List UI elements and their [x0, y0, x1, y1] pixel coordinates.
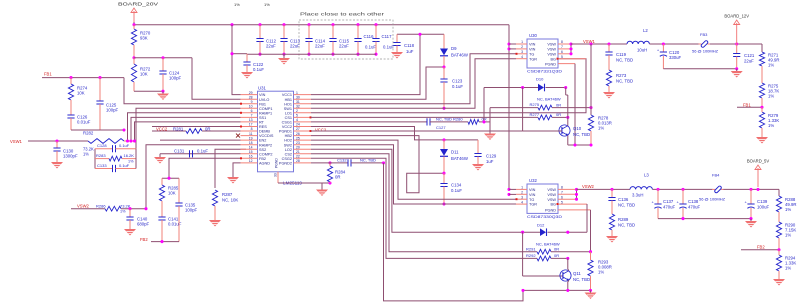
svg-text:25: 25 [296, 136, 300, 140]
svg-text:HO1: HO1 [284, 102, 292, 106]
resistor R270 [133, 25, 135, 29]
svg-text:1: 1 [521, 186, 523, 190]
svg-text:1%: 1% [598, 270, 604, 275]
wire VSW2 node [576, 189, 578, 199]
svg-text:Q11: Q11 [573, 271, 581, 276]
wire CS1 row [311, 116, 538, 118]
wire FB1 to pin 9 [124, 78, 241, 104]
svg-text:R291: R291 [526, 246, 536, 251]
svg-text:10K: 10K [77, 91, 85, 96]
svg-text:5: 5 [561, 55, 563, 59]
capacitor C132 row [311, 162, 348, 164]
svg-text:VSW: VSW [547, 43, 556, 47]
svg-text:VSW: VSW [547, 52, 556, 56]
wire CSG2 to R292 row [311, 158, 537, 258]
svg-text:U31: U31 [258, 86, 266, 91]
svg-text:1300pF: 1300pF [63, 154, 78, 159]
svg-text:330uF: 330uF [669, 55, 682, 60]
svg-text:5: 5 [296, 114, 298, 118]
svg-text:10K: 10K [168, 191, 176, 196]
resistor R274 [70, 78, 72, 84]
U32 pin 6 VSW [558, 198, 577, 200]
svg-text:CSG2: CSG2 [282, 157, 292, 161]
svg-text:1uF: 1uF [406, 49, 414, 54]
svg-text:R287: R287 [222, 192, 233, 197]
svg-text:RES: RES [259, 125, 267, 129]
svg-text:100pF: 100pF [106, 108, 119, 113]
U31 pin 7 SS1 [241, 116, 258, 118]
wire FB4 to output [724, 188, 780, 190]
svg-text:VIN: VIN [529, 193, 536, 197]
resistor R288 [776, 196, 781, 212]
svg-text:BG: BG [551, 203, 557, 207]
U31 pin 30 HB1 [294, 98, 312, 100]
svg-text:BAT46W: BAT46W [451, 53, 469, 58]
svg-text:12: 12 [249, 159, 253, 163]
ground divider ch1 [756, 137, 768, 144]
svg-text:NC, TBD R280: NC, TBD R280 [436, 117, 463, 122]
svg-text:0R: 0R [205, 126, 211, 131]
svg-text:TGR: TGR [529, 57, 537, 61]
wire output cap return [663, 68, 736, 70]
resistor R279 [759, 112, 764, 128]
svg-text:1%: 1% [120, 210, 126, 214]
svg-text:C121: C121 [744, 53, 755, 58]
svg-text:R275: R275 [530, 102, 540, 107]
svg-text:U32: U32 [529, 178, 537, 183]
svg-text:BOARD_20V: BOARD_20V [118, 2, 158, 7]
svg-text:10uH: 10uH [637, 48, 647, 53]
capacitor C134 [443, 173, 445, 183]
ground R280 [484, 134, 496, 141]
capacitor C127 [426, 118, 428, 125]
svg-text:PGND1: PGND1 [279, 130, 292, 134]
U30 pin 8 VSW [558, 43, 571, 45]
capacitor C129 [477, 140, 479, 154]
ground C129 [472, 164, 484, 171]
wire SS1 [131, 117, 241, 141]
wire feedback divider ch2 [778, 189, 780, 196]
wire VIN [230, 23, 233, 26]
wire FB1 net [42, 77, 124, 79]
ferrite bead FB3 [699, 43, 702, 45]
svg-text:1%: 1% [785, 233, 791, 238]
svg-text:22uF: 22uF [339, 44, 349, 49]
wire U31 pad to ground [278, 182, 330, 184]
svg-text:5: 5 [561, 200, 563, 204]
wire D10 anode down [522, 88, 524, 132]
capacitor C119 [608, 44, 610, 52]
svg-text:BOARD_12V: BOARD_12V [724, 14, 749, 19]
svg-text:FB1: FB1 [44, 72, 52, 77]
svg-text:1: 1 [296, 91, 298, 95]
ground AGND [227, 177, 239, 184]
svg-text:BG: BG [551, 57, 557, 61]
svg-text:470uF: 470uF [688, 205, 701, 210]
inductor L3 [630, 187, 652, 190]
ground R287 [209, 220, 221, 227]
capacitor C120 [662, 44, 664, 52]
svg-text:R277: R277 [530, 112, 540, 117]
wire EN2 row [160, 139, 241, 141]
svg-text:22uF: 22uF [290, 44, 300, 49]
ground U31 pad [321, 183, 323, 190]
svg-text:22: 22 [296, 155, 300, 159]
svg-text:C131: C131 [174, 148, 185, 153]
svg-text:100pF: 100pF [169, 76, 182, 81]
capacitor C135 [178, 178, 180, 203]
svg-text:0R: 0R [335, 175, 341, 180]
wire FB2 row to divider [169, 158, 241, 178]
svg-text:VSW: VSW [547, 188, 556, 192]
svg-text:1%: 1% [785, 266, 791, 271]
svg-text:0.1uF: 0.1uF [452, 84, 463, 89]
svg-text:10K: 10K [140, 72, 148, 77]
wire RT [135, 122, 241, 141]
svg-text:2: 2 [521, 45, 523, 49]
capacitor C114 [307, 23, 310, 26]
U32 pin 3 TG [516, 198, 527, 200]
svg-text:6: 6 [561, 195, 563, 199]
svg-text:CS2: CS2 [285, 152, 292, 156]
wire ch1 pgnd rail [568, 144, 591, 146]
wire R272 C124 bottom [134, 90, 163, 92]
U30 pin 5 BG [558, 58, 586, 60]
U31 pin 24 VCC2 [294, 126, 312, 128]
svg-text:28: 28 [296, 159, 300, 163]
svg-text:TG: TG [529, 52, 534, 56]
svg-text:CSD87330Q3D: CSD87330Q3D [527, 214, 562, 219]
svg-text:0.1uF: 0.1uF [451, 188, 462, 193]
wire RAMP2 to divider [146, 145, 241, 209]
svg-text:26: 26 [296, 132, 300, 136]
U31 pin 8 DEMB [241, 130, 258, 132]
svg-text:100uF: 100uF [757, 205, 770, 210]
U31 pin 17 RES [241, 126, 258, 128]
svg-text:0.01uF: 0.01uF [168, 222, 182, 227]
svg-text:0.1uF: 0.1uF [197, 148, 208, 153]
svg-text:4: 4 [521, 200, 523, 204]
diode D11 BAT46W [443, 140, 445, 149]
capacitor C131 [189, 150, 191, 157]
svg-text:0R: 0R [554, 246, 559, 251]
svg-text:RAMP2: RAMP2 [259, 143, 272, 147]
U31 pin 9 FB1 [241, 103, 258, 105]
svg-text:PGND2: PGND2 [279, 162, 292, 166]
svg-text:NC, BAT46W: NC, BAT46W [537, 97, 561, 102]
svg-text:1%: 1% [83, 152, 89, 157]
wire HO2 to U32 TG [311, 140, 516, 199]
svg-text:1%: 1% [785, 207, 791, 212]
svg-text:VCC2: VCC2 [315, 128, 327, 133]
capacitor C123 [443, 67, 445, 79]
svg-text:7: 7 [251, 114, 253, 118]
svg-text:16: 16 [249, 155, 253, 159]
svg-text:0.1uF: 0.1uF [119, 143, 130, 148]
svg-text:1%: 1% [234, 2, 240, 7]
capacitor C128 [95, 148, 113, 150]
resistor R273 [606, 70, 611, 86]
U31 pin 1 VCC1 [294, 94, 312, 96]
ground COMP2 network [159, 154, 161, 157]
svg-text:RT: RT [259, 121, 265, 125]
svg-text:AGND: AGND [259, 162, 270, 166]
transistor Q11 [560, 270, 571, 281]
resistor R289 [609, 214, 614, 230]
svg-text:7: 7 [561, 191, 563, 195]
ground output ch1 [736, 69, 738, 71]
wire U32 VIN stubs [507, 188, 510, 191]
svg-text:NC, TBD: NC, TBD [573, 277, 590, 282]
U31 pin 5 CS1 [294, 116, 312, 118]
svg-text:VIN: VIN [529, 43, 536, 47]
svg-text:6: 6 [251, 109, 253, 113]
dashed region box [299, 20, 393, 59]
svg-text:CSD87331Q3D: CSD87331Q3D [527, 69, 562, 74]
capacitor C118 [396, 34, 398, 42]
wire D12 to Q11 base [522, 232, 524, 276]
resistor R284 [328, 161, 331, 164]
U31 pin 25 HO2 [294, 139, 312, 141]
wire RES row [152, 126, 241, 128]
resistor R283 [95, 158, 109, 160]
svg-text:EN2: EN2 [259, 139, 266, 143]
U30 pin 2 VIN [516, 48, 527, 50]
wire U30 PGND down [574, 64, 576, 145]
svg-text:C119: C119 [616, 52, 627, 57]
resistor R294 [776, 255, 781, 271]
svg-text:LO2: LO2 [285, 148, 292, 152]
U32 pin 7 VSW [558, 193, 577, 195]
wire CS2 to R291 row [311, 154, 537, 252]
svg-text:HB2: HB2 [285, 134, 292, 138]
svg-text:21: 21 [296, 150, 300, 154]
resistor R293 shunt [588, 260, 593, 276]
U32 pin 5 BG [558, 203, 587, 205]
svg-text:470uF: 470uF [663, 205, 676, 210]
svg-text:D10: D10 [536, 77, 544, 82]
U31 pin 14 SS2 [241, 148, 258, 150]
svg-text:14: 14 [249, 145, 253, 149]
diode D12 NC [523, 231, 540, 233]
resistor R275 0R [490, 107, 538, 109]
wire COMP2 row [160, 153, 241, 155]
svg-text:17: 17 [249, 123, 253, 127]
U31 pin 23 SW2 [294, 144, 312, 146]
wire VSW1 node [570, 44, 572, 54]
svg-text:HO2: HO2 [284, 139, 292, 143]
svg-text:32: 32 [296, 105, 300, 109]
U30 pin 1 VIN [516, 43, 527, 45]
wire ch2 pgnd rail [522, 289, 591, 291]
wire LO2 to D12 row [311, 149, 523, 232]
wire VCC2 net [311, 127, 478, 140]
wire L2 to FB3 [649, 43, 701, 45]
svg-text:COMP2: COMP2 [259, 152, 273, 156]
U32 pin 1 VIN [516, 188, 527, 190]
svg-text:R286: R286 [96, 203, 106, 208]
resistor R286 [105, 206, 121, 211]
ground output ch2 [750, 219, 752, 221]
svg-text:11: 11 [249, 132, 253, 136]
wire LO1 to U30 BG [311, 59, 586, 113]
ground C122 [241, 72, 253, 79]
svg-text:Place close to each other: Place close to each other [300, 12, 385, 17]
svg-text:C129: C129 [486, 154, 497, 159]
U30 pin 7 VSW [558, 48, 571, 50]
svg-text:1%: 1% [598, 126, 604, 131]
capacitor C138 [682, 189, 684, 204]
wire FB1 block bottom [71, 129, 124, 131]
svg-text:29: 29 [249, 91, 253, 95]
wire PGND2 bottom loop [384, 163, 524, 301]
wire AGND [233, 163, 241, 177]
ground C140 [124, 229, 136, 236]
resistor R271 [759, 52, 764, 66]
svg-text:R282: R282 [83, 131, 94, 136]
svg-text:4: 4 [521, 55, 523, 59]
svg-text:93K: 93K [140, 36, 148, 41]
svg-text:33: 33 [274, 173, 278, 177]
svg-text:TGR: TGR [529, 203, 537, 207]
svg-text:NC, TBD: NC, TBD [573, 132, 590, 137]
resistor R285 [161, 178, 163, 185]
wire input rail 20V [133, 22, 135, 25]
U30 pin 4 TGR [516, 58, 527, 60]
wire VSW1 [28, 140, 88, 142]
ground C118 [391, 52, 403, 59]
svg-text:31: 31 [296, 100, 300, 104]
svg-text:100pF: 100pF [185, 208, 198, 213]
capacitor C136 [611, 189, 613, 197]
U32 pin 4 TGR [516, 203, 527, 205]
svg-text:2: 2 [521, 191, 523, 195]
svg-text:0R: 0R [556, 102, 561, 107]
svg-text:C123: C123 [452, 79, 463, 84]
wire shunt ch1 [590, 44, 592, 115]
resistor R281 [152, 130, 186, 132]
capacitor C112 [258, 23, 261, 26]
svg-text:FB2: FB2 [757, 245, 765, 250]
capacitor C116 [356, 23, 359, 26]
wire cap bank bottom rail [232, 53, 247, 55]
svg-text:C137: C137 [663, 199, 674, 204]
U31 pin 11 VCCDIS [241, 135, 258, 137]
wire HB1 boot node [311, 67, 444, 99]
U31 pin 32 SW1 [294, 107, 312, 109]
svg-text:TG: TG [529, 198, 534, 202]
svg-text:28: 28 [249, 95, 253, 99]
wire SW1 to U30 TGR [311, 59, 516, 109]
svg-text:HB1: HB1 [285, 98, 292, 102]
capacitor C133 [95, 168, 113, 170]
svg-text:VCCDIS: VCCDIS [259, 134, 274, 138]
svg-text:UVLO: UVLO [259, 98, 269, 102]
op-amp U31 LM25119 body [258, 91, 294, 172]
capacitor C122 [246, 54, 248, 62]
svg-text:1%: 1% [264, 2, 270, 7]
svg-text:0.1uF: 0.1uF [119, 163, 130, 168]
svg-text:D11: D11 [451, 150, 459, 155]
svg-text:NC, TBD: NC, TBD [618, 223, 635, 228]
U31 pin 27 PGND1 [294, 130, 312, 132]
wire CS sense vertical [489, 108, 491, 134]
svg-text:1%: 1% [768, 123, 774, 128]
U31 pin 18 RAMP2 [241, 144, 258, 146]
svg-text:VSW: VSW [547, 48, 556, 52]
svg-text:18: 18 [249, 141, 253, 145]
U30 pin 6 VSW [558, 53, 571, 55]
ground ch2 pgnd [590, 290, 592, 292]
svg-text:C136: C136 [618, 197, 629, 202]
svg-text:SW2: SW2 [284, 143, 292, 147]
svg-text:VSW2: VSW2 [77, 204, 90, 209]
wire UVLO [192, 58, 241, 99]
svg-text:3: 3 [521, 50, 523, 54]
svg-text:2: 2 [296, 109, 298, 113]
capacitor C125 [99, 78, 101, 101]
diode D9 BAT46W [443, 34, 445, 48]
svg-text:10: 10 [249, 105, 253, 109]
wire SW2 to U32 TGR [311, 145, 516, 204]
svg-text:VIN: VIN [259, 93, 266, 97]
svg-text:U30: U30 [529, 33, 537, 38]
svg-text:1: 1 [521, 40, 523, 44]
svg-text:13: 13 [249, 118, 253, 122]
ground cap bank [283, 54, 285, 58]
U31 pin 33 PGND pad [277, 172, 279, 183]
svg-text:C133: C133 [97, 163, 107, 168]
svg-text:22uF: 22uF [744, 59, 754, 64]
svg-text:L2: L2 [643, 28, 648, 33]
svg-text:R283: R283 [96, 153, 106, 158]
svg-text:D9: D9 [451, 46, 457, 51]
capacitor C124 [162, 58, 164, 71]
svg-text:RAMP1: RAMP1 [259, 111, 272, 115]
svg-text:VSW1: VSW1 [583, 39, 596, 44]
U31 pin 28 UVLO [241, 98, 258, 100]
svg-text:C117: C117 [382, 34, 393, 39]
svg-text:3: 3 [521, 195, 523, 199]
wire RAMP1 [128, 113, 241, 141]
svg-text:FB4: FB4 [712, 173, 720, 178]
capacitor C126 [67, 114, 74, 116]
U31 pin 28 PGND2 [294, 162, 312, 164]
resistor R277 [538, 115, 552, 120]
svg-text:0R: 0R [556, 112, 561, 117]
svg-text:PGND: PGND [275, 158, 279, 168]
svg-text:9: 9 [251, 100, 253, 104]
resistor R282 [88, 139, 124, 144]
svg-text:1%: 1% [768, 63, 774, 68]
svg-text:22uF: 22uF [266, 44, 276, 49]
svg-text:VIN: VIN [529, 48, 536, 52]
svg-text:1uF: 1uF [486, 159, 494, 164]
resistor R290 [776, 222, 781, 238]
svg-text:VCC1: VCC1 [282, 93, 292, 97]
svg-text:SS2: SS2 [259, 148, 266, 152]
svg-text:56 @ 100MHZ: 56 @ 100MHZ [699, 197, 726, 202]
diode D10 NC [483, 88, 485, 122]
resistor R275 divider [759, 83, 764, 98]
svg-text:23: 23 [296, 141, 300, 145]
svg-text:24: 24 [296, 123, 300, 127]
ground C130 [51, 162, 63, 169]
U31 pin 6 RAMP1 [241, 112, 258, 114]
svg-text:R281: R281 [173, 126, 184, 131]
ground divider ch2 [773, 279, 785, 286]
svg-text:0.1uF: 0.1uF [365, 45, 376, 50]
